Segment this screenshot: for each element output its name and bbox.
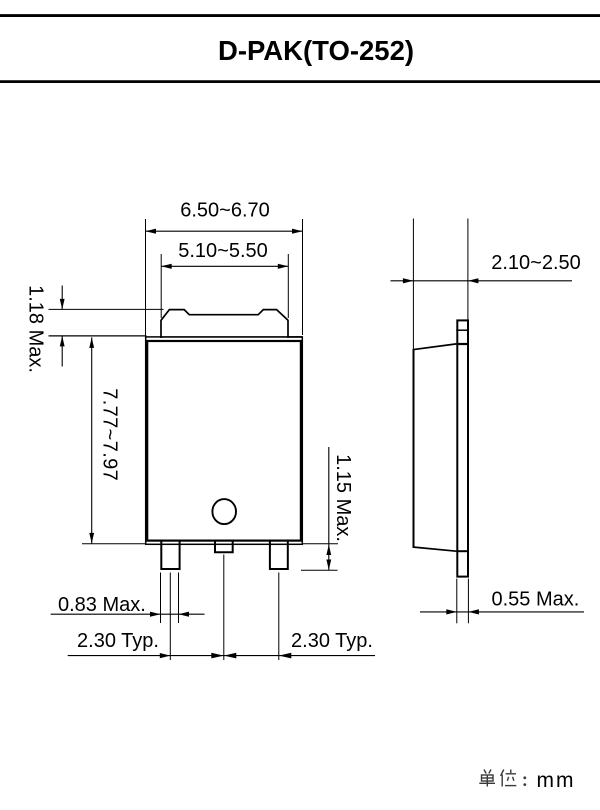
unit note: mm bbox=[537, 769, 576, 792]
dim 1.15 Max lower extension line bbox=[301, 569, 338, 571]
dim 1.15 Max label (rotated) bbox=[332, 454, 354, 542]
side view extension line left bbox=[412, 219, 414, 350]
dim 0.55 Max extension line left bbox=[456, 579, 458, 624]
dim 0.83 Max extension line left bbox=[160, 573, 162, 624]
svg-text:mm: mm bbox=[537, 769, 576, 792]
svg-text:5.10~5.50: 5.10~5.50 bbox=[178, 240, 268, 262]
dim 0.83 Max label bbox=[58, 594, 146, 616]
side view body top slant bbox=[413, 344, 457, 350]
unit note: hanzi 单 bbox=[479, 770, 495, 787]
dim 5.10~5.50 dimension line with arrows bbox=[161, 264, 288, 269]
dim 0.55 Max extension line right bbox=[467, 579, 469, 624]
dim 5.10~5.50 extension line right bbox=[287, 254, 289, 318]
tab bottom line bbox=[160, 336, 302, 338]
svg-text:1.15 Max.: 1.15 Max. bbox=[332, 454, 354, 542]
dim 2.30 Typ right label bbox=[291, 630, 373, 652]
svg-text:2.30 Typ.: 2.30 Typ. bbox=[291, 630, 373, 652]
svg-text:6.50~6.70: 6.50~6.70 bbox=[180, 200, 270, 222]
lead 2 (middle stub) bbox=[215, 539, 233, 552]
tab (front view) bbox=[161, 310, 288, 338]
dim 0.55 Max label bbox=[492, 589, 580, 611]
svg-text:0.55 Max.: 0.55 Max. bbox=[492, 589, 580, 611]
title underline rule bbox=[0, 80, 600, 83]
dim 7.77~7.97 bottom extension line bbox=[82, 543, 146, 545]
dim 1.18 Max top extension line bbox=[49, 308, 164, 310]
side view tab strip bbox=[457, 320, 468, 576]
side view body bottom slant bbox=[413, 547, 457, 551]
dim 6.50~6.70 label bbox=[180, 200, 270, 222]
dim 6.50~6.70 extension line right bbox=[302, 219, 304, 335]
mounting hole circle bbox=[212, 499, 236, 524]
unit note: fullwidth colon bbox=[523, 776, 526, 786]
dim 0.55 Max dimension line with outside arrows bbox=[420, 609, 584, 614]
svg-text:0.83 Max.: 0.83 Max. bbox=[58, 594, 146, 616]
dim 0.83 Max dimension line with outside arrows bbox=[51, 612, 205, 617]
svg-text:2.10~2.50: 2.10~2.50 bbox=[491, 252, 581, 274]
dim 2.30 Typ dimension line with outside arrows and middle bowtie bbox=[68, 653, 375, 659]
dim 5.10~5.50 label bbox=[178, 240, 268, 262]
dim 6.50~6.70 dimension line with arrows bbox=[146, 229, 303, 234]
dim 6.50~6.70 extension line left bbox=[145, 219, 147, 337]
dim 1.18 Max label (rotated) bbox=[24, 285, 46, 373]
unit note: hanzi 位 bbox=[501, 770, 517, 787]
svg-text:1.18 Max.: 1.18 Max. bbox=[24, 285, 46, 373]
dim 2.30 Typ left label bbox=[77, 630, 159, 652]
svg-text:2.30 Typ.: 2.30 Typ. bbox=[77, 630, 159, 652]
side view strip divider 3 bbox=[456, 550, 469, 552]
dim 1.18 Max bottom extension line bbox=[49, 335, 147, 337]
title D-PAK(TO-252) bbox=[218, 35, 414, 66]
dim 2.10~2.50 dimension line with outside arrows bbox=[391, 278, 573, 283]
svg-text:D-PAK(TO-252): D-PAK(TO-252) bbox=[218, 35, 414, 66]
dim 7.77~7.97 label (rotated) bbox=[99, 388, 121, 481]
body front view outer outline bbox=[146, 337, 303, 544]
side view strip divider 1 bbox=[456, 329, 469, 331]
top rule bbox=[0, 14, 600, 17]
dim 1.15 Max upper extension line bbox=[303, 543, 338, 545]
dim 5.10~5.50 extension line left bbox=[160, 254, 162, 318]
dim 1.15 Max dimension line with arrows bbox=[326, 447, 331, 570]
side view body left edge bbox=[413, 350, 415, 548]
side view: 2.10~2.50 label bbox=[491, 252, 581, 274]
lead3 center extension line bbox=[278, 573, 280, 661]
lead 1 (left) bbox=[161, 539, 179, 569]
dim 1.18 Max dimension line with arrows bbox=[60, 286, 65, 367]
svg-text:7.77~7.97: 7.77~7.97 bbox=[99, 388, 121, 481]
body front view inner outline bbox=[147, 341, 301, 541]
lead 3 (right) bbox=[270, 539, 288, 569]
side view extension line right bbox=[467, 219, 469, 321]
dim 0.83 Max extension line right bbox=[178, 573, 180, 624]
lead1 center extension line bbox=[169, 573, 171, 661]
lead2 center extension line bbox=[223, 555, 225, 661]
dim 7.77~7.97 dimension line with arrows bbox=[89, 337, 94, 543]
side view strip divider 2 bbox=[456, 343, 469, 345]
